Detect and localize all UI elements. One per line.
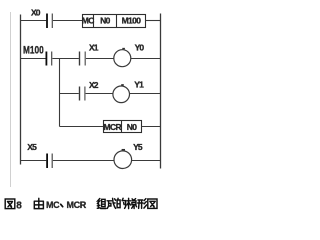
contact X1 <box>80 52 86 66</box>
wire rung2 mid <box>52 58 79 60</box>
caption char 组 <box>97 199 106 209</box>
right power rail <box>160 14 162 169</box>
contact M100 <box>46 52 51 66</box>
wire rung3 right <box>129 93 160 95</box>
svg-text:M100: M100 <box>23 45 44 57</box>
contact X0 <box>47 14 52 29</box>
function box MCR N0 <box>104 121 142 133</box>
coil Y0 <box>114 50 131 67</box>
wire rung3 to coil <box>86 93 114 95</box>
wire rung1 left <box>20 20 46 22</box>
wire rung1 right <box>146 20 161 22</box>
caption char 成 <box>107 198 116 208</box>
svg-text:8: 8 <box>16 200 22 211</box>
caption char 的 <box>117 198 126 208</box>
wire rung5 right <box>131 160 160 162</box>
svg-text:M100: M100 <box>122 16 142 26</box>
contact X2 <box>80 87 85 101</box>
svg-text:N0: N0 <box>100 16 111 26</box>
wire rung3 left <box>60 93 79 95</box>
svg-text:X2: X2 <box>89 80 99 90</box>
svg-text:X0: X0 <box>31 8 41 18</box>
svg-text:Y1: Y1 <box>134 79 144 89</box>
svg-text:N0: N0 <box>127 122 138 132</box>
caption ideographic comma <box>61 204 63 206</box>
wire rung5 to coil <box>53 160 114 162</box>
left power rail <box>20 15 22 165</box>
coil Y5 <box>114 151 132 169</box>
wire rung2 to coil <box>86 58 114 60</box>
wire rung1 middle <box>53 20 83 22</box>
svg-text:X1: X1 <box>89 42 99 52</box>
svg-text:Y5: Y5 <box>133 142 143 152</box>
contact X5 <box>47 154 52 169</box>
svg-text:X5: X5 <box>27 142 37 152</box>
wire rung4 right <box>142 126 161 128</box>
branch wire vertical <box>59 59 61 127</box>
wire rung4 left <box>60 126 104 128</box>
svg-text:Y0: Y0 <box>135 42 145 52</box>
svg-text:MCR: MCR <box>104 122 122 132</box>
caption char 形 <box>138 199 147 209</box>
wire rung2 right <box>131 58 161 60</box>
caption char 由 <box>34 198 43 208</box>
svg-text:MC: MC <box>46 200 60 210</box>
svg-text:MCR: MCR <box>67 200 87 210</box>
wire rung5 left <box>20 160 46 162</box>
caption char 图 <box>5 199 15 209</box>
wire rung2 left <box>20 58 46 60</box>
function box MC N0 M100 <box>82 15 146 28</box>
caption char 图2 <box>148 199 157 208</box>
caption: 图8 由 MC、MCR 组成的梯形图 <box>5 198 157 211</box>
coil Y1 <box>113 86 130 103</box>
svg-text:MC: MC <box>82 16 94 26</box>
faint page border line <box>10 12 12 187</box>
caption char 梯 <box>127 198 137 208</box>
